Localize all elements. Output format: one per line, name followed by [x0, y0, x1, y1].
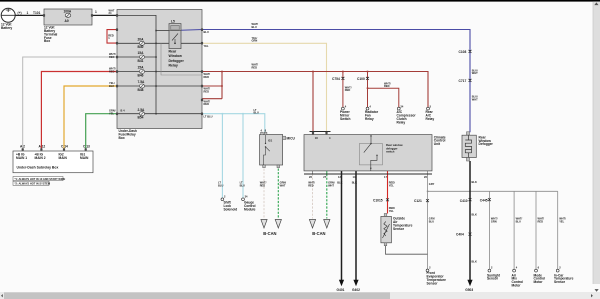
svg-text:RED: RED: [109, 69, 115, 73]
svg-text:Relay: Relay: [397, 120, 406, 124]
svg-text:RED: RED: [384, 84, 390, 88]
svg-text:A0: A0: [65, 19, 69, 23]
svg-text:A 2: A 2: [20, 145, 25, 149]
svg-text:BLK: BLK: [337, 181, 342, 185]
svg-text:MAIN 2: MAIN 2: [35, 156, 46, 160]
svg-text:BLK: BLK: [472, 212, 477, 216]
svg-text:C121: C121: [414, 199, 422, 203]
svg-text:BLU: BLU: [218, 183, 223, 187]
svg-text:switch: switch: [386, 150, 395, 154]
svg-text:7.5A: 7.5A: [138, 80, 146, 84]
svg-text:Sensor: Sensor: [427, 281, 439, 285]
svg-text:RED: RED: [252, 65, 258, 69]
svg-text:C410: C410: [460, 199, 468, 203]
svg-text:C108: C108: [459, 50, 467, 54]
svg-text:Module: Module: [244, 207, 256, 211]
svg-text:C404: C404: [456, 233, 464, 237]
svg-text:Defogger: Defogger: [169, 59, 185, 63]
svg-text:B46: B46: [138, 73, 144, 77]
svg-text:MAIN: MAIN: [80, 156, 89, 160]
svg-text:G401: G401: [337, 288, 345, 292]
svg-text:WHT: WHT: [472, 71, 478, 75]
svg-text:B40: B40: [138, 45, 144, 49]
svg-text:Under-Dash Subrelay Box: Under-Dash Subrelay Box: [17, 166, 59, 170]
svg-text:GRN: GRN: [252, 39, 258, 43]
svg-text:C445: C445: [480, 198, 488, 202]
svg-text:Window: Window: [169, 54, 183, 58]
svg-text:GRN: GRN: [491, 219, 497, 223]
svg-text:WHT: WHT: [280, 183, 286, 187]
svg-text:C100: C100: [357, 77, 365, 81]
svg-text:BLK: BLK: [472, 180, 477, 184]
svg-text:*2: ALWAYS HOT IN SYSTEM: *2: ALWAYS HOT IN SYSTEM: [15, 182, 51, 186]
svg-text:Box: Box: [119, 136, 125, 140]
svg-text:BLU: BLU: [516, 219, 521, 223]
svg-text:G402: G402: [352, 288, 360, 292]
svg-text:YEL: YEL: [559, 219, 564, 223]
svg-text:20A: 20A: [138, 37, 145, 41]
svg-text:Sensor: Sensor: [487, 277, 499, 281]
svg-text:IG1: IG1: [268, 139, 273, 143]
svg-text:B-CAN: B-CAN: [312, 231, 325, 236]
svg-text:1: 1: [27, 11, 29, 15]
svg-text:C1015: C1015: [373, 198, 383, 202]
svg-text:C 14: C 14: [61, 145, 68, 149]
svg-text:B 4: B 4: [121, 109, 126, 113]
svg-text:BLU: BLU: [429, 219, 434, 223]
svg-text:Box: Box: [44, 39, 50, 43]
svg-text:RED: RED: [538, 219, 544, 223]
svg-text:Unit: Unit: [434, 142, 441, 146]
svg-text:Motor: Motor: [512, 284, 522, 288]
svg-text:*1: ALWAYS HOT IN 10 AND START: *1: ALWAYS HOT IN 10 AND START WIRE: [15, 177, 66, 181]
svg-text:RED: RED: [345, 88, 351, 92]
svg-text:C 13: C 13: [83, 145, 90, 149]
svg-text:T101: T101: [33, 11, 41, 15]
svg-text:BLK: BLK: [472, 259, 477, 263]
svg-text:RED: RED: [109, 55, 115, 59]
svg-text:L5: L5: [171, 19, 175, 23]
svg-text:Switch: Switch: [340, 117, 350, 121]
svg-text:BLU: BLU: [254, 111, 259, 115]
svg-text:BLK: BLK: [352, 181, 357, 185]
svg-text:B-CAN: B-CAN: [263, 231, 276, 236]
svg-text:15A: 15A: [138, 66, 145, 70]
svg-text:YEL: YEL: [389, 209, 394, 213]
svg-text:RED: RED: [204, 75, 210, 79]
svg-text:100A: 100A: [64, 9, 72, 13]
svg-text:Relay: Relay: [169, 63, 178, 67]
svg-text:(+): (+): [18, 11, 22, 15]
svg-text:15A: 15A: [138, 51, 145, 55]
svg-text:C717: C717: [459, 79, 467, 83]
svg-text:Rear: Rear: [169, 50, 177, 54]
svg-text:Sensor: Sensor: [393, 227, 405, 231]
svg-text:B54: B54: [138, 116, 144, 120]
svg-text:RED: RED: [204, 90, 210, 94]
svg-text:BLU: BLU: [252, 25, 257, 29]
svg-text:Relay: Relay: [426, 117, 435, 121]
svg-text:MAIN: MAIN: [59, 156, 68, 160]
svg-text:BLU: BLU: [204, 30, 209, 34]
svg-text:Relay: Relay: [365, 117, 374, 121]
svg-text:RED: RED: [260, 183, 266, 187]
svg-text:YEL: YEL: [204, 44, 209, 48]
svg-text:MICU: MICU: [287, 136, 296, 140]
svg-text:Defogger: Defogger: [479, 142, 494, 146]
svg-text:A 12: A 12: [39, 145, 46, 149]
svg-text:G503: G503: [465, 288, 473, 292]
svg-text:B41: B41: [138, 59, 144, 63]
svg-text:RED: RED: [204, 102, 210, 106]
svg-text:YEL: YEL: [389, 183, 394, 187]
svg-text:LT BLU: LT BLU: [204, 114, 213, 118]
svg-text:WHT: WHT: [328, 183, 334, 187]
svg-text:2.5A: 2.5A: [138, 108, 146, 112]
svg-text:Battery: Battery: [1, 26, 12, 30]
svg-text:GRY: GRY: [429, 182, 435, 186]
svg-text:C754: C754: [332, 77, 340, 81]
svg-text:Motor: Motor: [534, 280, 544, 284]
svg-text:YEL: YEL: [109, 112, 114, 116]
svg-text:BLU: BLU: [240, 183, 245, 187]
svg-text:1: 1: [95, 10, 97, 14]
svg-text:RED: RED: [308, 183, 314, 187]
svg-text:BLK: BLK: [109, 84, 114, 88]
svg-text:WHT: WHT: [472, 97, 478, 101]
svg-text:B48: B48: [138, 88, 144, 92]
svg-text:Sensor: Sensor: [554, 280, 566, 284]
svg-text:MAIN 1: MAIN 1: [16, 156, 27, 160]
svg-text:Solenoid: Solenoid: [224, 207, 238, 211]
